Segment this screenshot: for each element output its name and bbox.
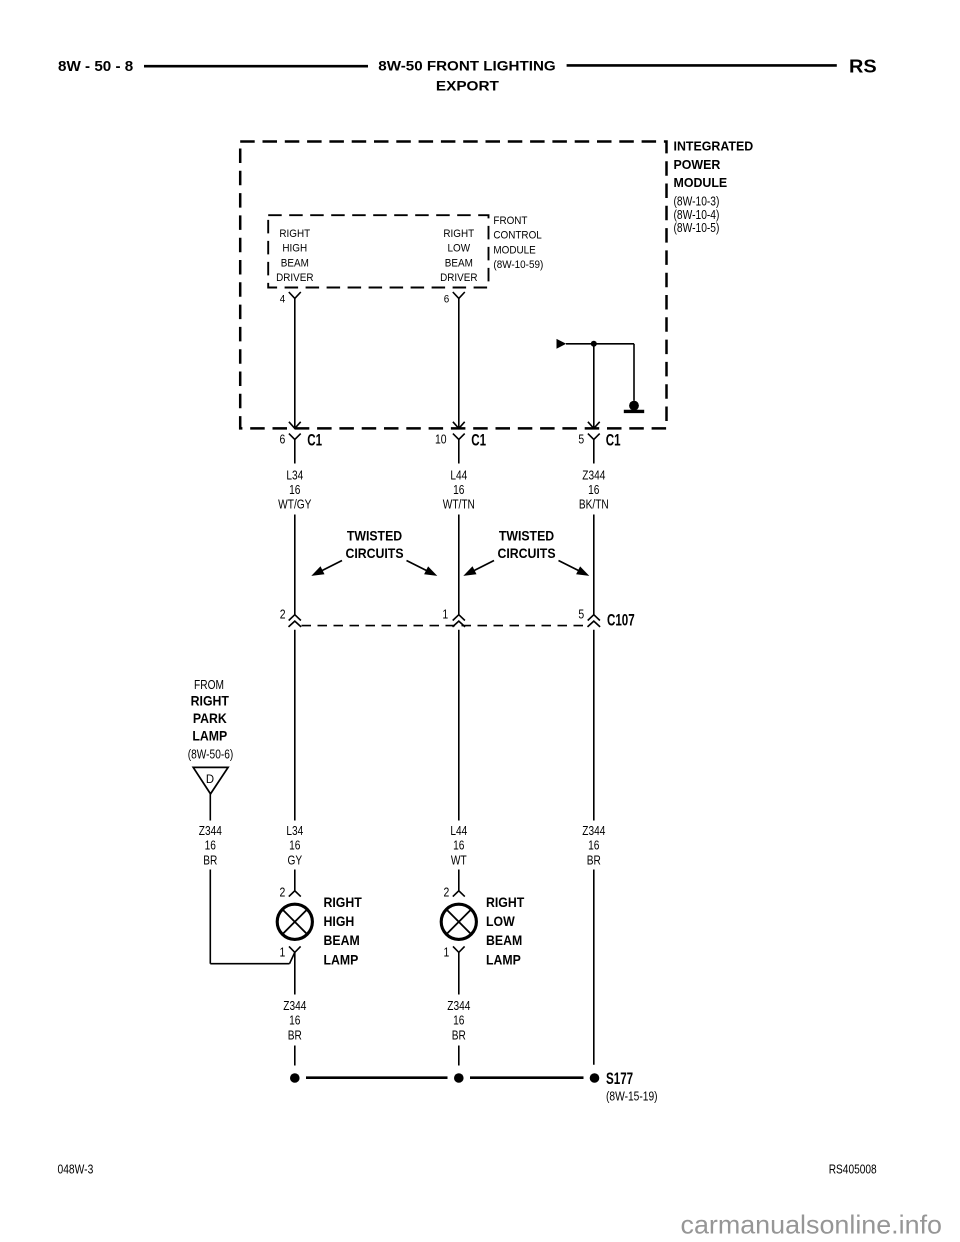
svg-text:MODULE: MODULE	[493, 244, 535, 256]
svg-text:4: 4	[280, 294, 286, 306]
svg-text:S177: S177	[606, 1070, 633, 1088]
svg-text:CIRCUITS: CIRCUITS	[497, 545, 555, 561]
svg-text:6: 6	[444, 294, 450, 306]
svg-text:1: 1	[280, 945, 286, 959]
svg-text:6: 6	[280, 433, 286, 447]
svg-text:16: 16	[588, 838, 599, 853]
svg-text:BEAM: BEAM	[445, 257, 473, 269]
svg-text:D: D	[206, 772, 214, 786]
svg-text:5: 5	[578, 433, 584, 447]
svg-text:DRIVER: DRIVER	[440, 272, 477, 284]
svg-text:C1: C1	[471, 432, 486, 450]
svg-text:L44: L44	[450, 823, 467, 838]
svg-text:LAMP: LAMP	[192, 728, 227, 744]
svg-text:BR: BR	[203, 852, 217, 867]
svg-text:(8W-15-19): (8W-15-19)	[606, 1089, 658, 1103]
svg-text:WT/TN: WT/TN	[443, 497, 475, 512]
svg-text:(8W-50-6): (8W-50-6)	[188, 747, 234, 762]
svg-text:16: 16	[453, 482, 464, 497]
svg-text:RS: RS	[849, 55, 877, 76]
svg-text:carmanualsonline.info: carmanualsonline.info	[681, 1210, 943, 1240]
svg-text:Z344: Z344	[199, 823, 222, 838]
svg-text:(8W-10-4): (8W-10-4)	[674, 208, 720, 222]
svg-text:(8W-10-3): (8W-10-3)	[674, 194, 720, 208]
svg-text:Z344: Z344	[447, 998, 470, 1013]
svg-text:GY: GY	[287, 852, 302, 867]
svg-text:FROM: FROM	[194, 677, 224, 692]
svg-text:C1: C1	[307, 432, 322, 450]
svg-text:EXPORT: EXPORT	[436, 78, 499, 94]
svg-text:C1: C1	[606, 432, 621, 450]
svg-text:16: 16	[289, 838, 300, 853]
svg-text:RIGHT: RIGHT	[191, 693, 230, 709]
svg-text:L44: L44	[450, 467, 467, 482]
svg-text:RIGHT: RIGHT	[279, 228, 310, 240]
svg-text:5: 5	[578, 607, 584, 621]
svg-text:POWER: POWER	[674, 157, 721, 172]
svg-text:L34: L34	[286, 467, 303, 482]
svg-text:16: 16	[289, 1013, 300, 1028]
svg-text:Z344: Z344	[582, 467, 605, 482]
svg-text:16: 16	[453, 1013, 464, 1028]
svg-text:2: 2	[280, 886, 286, 900]
svg-text:16: 16	[588, 482, 599, 497]
svg-text:10: 10	[435, 433, 447, 447]
svg-text:2: 2	[444, 886, 450, 900]
svg-text:048W-3: 048W-3	[58, 1161, 94, 1176]
svg-text:BEAM: BEAM	[486, 932, 522, 948]
svg-text:1: 1	[442, 607, 448, 621]
svg-text:FRONT: FRONT	[493, 215, 527, 227]
svg-text:BR: BR	[288, 1027, 302, 1042]
svg-text:BR: BR	[452, 1027, 466, 1042]
svg-text:TWISTED: TWISTED	[499, 528, 554, 544]
svg-text:WT: WT	[451, 852, 467, 867]
svg-text:RIGHT: RIGHT	[443, 228, 474, 240]
svg-text:8W-50 FRONT LIGHTING: 8W-50 FRONT LIGHTING	[378, 58, 555, 74]
svg-text:1: 1	[444, 945, 450, 959]
svg-text:C107: C107	[607, 612, 635, 630]
svg-text:LAMP: LAMP	[324, 951, 359, 967]
svg-text:16: 16	[289, 482, 300, 497]
svg-text:HIGH: HIGH	[324, 913, 355, 929]
svg-text:CIRCUITS: CIRCUITS	[345, 545, 403, 561]
svg-text:(8W-10-5): (8W-10-5)	[674, 221, 720, 235]
svg-text:(8W-10-59): (8W-10-59)	[493, 259, 543, 271]
svg-text:BEAM: BEAM	[281, 257, 309, 269]
svg-text:LOW: LOW	[486, 913, 515, 929]
svg-text:16: 16	[453, 838, 464, 853]
svg-text:LOW: LOW	[448, 243, 471, 255]
svg-text:LAMP: LAMP	[486, 951, 521, 967]
svg-text:8W - 50 - 8: 8W - 50 - 8	[58, 59, 133, 75]
svg-text:BK/TN: BK/TN	[579, 497, 609, 512]
svg-text:RIGHT: RIGHT	[324, 894, 363, 910]
svg-text:TWISTED: TWISTED	[347, 528, 402, 544]
svg-text:WT/GY: WT/GY	[278, 497, 312, 512]
svg-text:PARK: PARK	[193, 710, 227, 726]
svg-text:DRIVER: DRIVER	[276, 272, 313, 284]
svg-text:RIGHT: RIGHT	[486, 894, 525, 910]
svg-text:BEAM: BEAM	[324, 932, 360, 948]
svg-text:2: 2	[280, 607, 286, 621]
svg-text:Z344: Z344	[582, 823, 605, 838]
svg-text:CONTROL: CONTROL	[493, 230, 541, 242]
svg-text:L34: L34	[286, 823, 303, 838]
svg-text:HIGH: HIGH	[282, 243, 307, 255]
svg-text:16: 16	[205, 838, 216, 853]
svg-text:MODULE: MODULE	[674, 175, 728, 190]
svg-text:INTEGRATED: INTEGRATED	[674, 139, 754, 154]
svg-text:RS405008: RS405008	[829, 1161, 877, 1176]
svg-text:Z344: Z344	[283, 998, 306, 1013]
svg-text:BR: BR	[587, 852, 601, 867]
